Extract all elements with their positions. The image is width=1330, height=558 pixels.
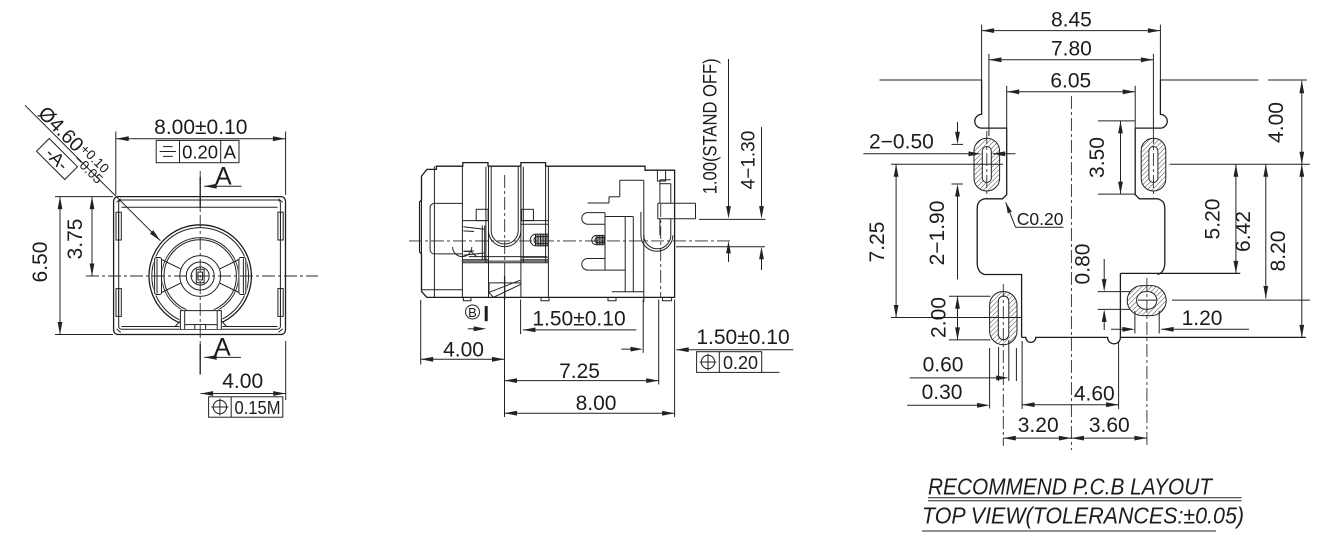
svg-text:A: A (214, 334, 231, 362)
middle view: bottom leg block with diagonals (489, 276, 521, 300)
pcb layout: dimension 2-0.50 leader (863, 130, 1015, 156)
svg-text:0.20: 0.20 (723, 353, 758, 373)
left view: section arrow A top (200, 163, 241, 209)
pcb layout: dimension 4.60 (1022, 341, 1119, 409)
middle view: top notch on back shield (657, 170, 665, 181)
pcb layout: slot center extension lines (891, 163, 1003, 165)
middle view: dimension 1.50±0.10 left (521, 300, 644, 353)
middle view: dimension 4.00 (421, 300, 505, 365)
svg-text:1.50±0.10: 1.50±0.10 (696, 326, 789, 349)
pcb layout: dimension 2.00 (928, 296, 991, 340)
left view: center pin hole (196, 269, 204, 282)
left view: edge clips (116, 212, 283, 316)
pcb layout: upper-left slot pad (974, 131, 1000, 198)
svg-text:3.20: 3.20 (1018, 414, 1059, 437)
middle view: centerlines (409, 240, 733, 242)
left view: dimension 4.00 with position frame (201, 341, 286, 418)
middle view: right pin (658, 203, 696, 219)
pcb layout: upper-right slot pad (1141, 131, 1166, 198)
pcb layout: dimension 0.60 leader (910, 340, 1017, 381)
middle view: standoff feet (463, 297, 671, 300)
left view: feature control frame symmetry 0.20 A (156, 140, 239, 162)
pcb layout: dimensions 4.00 / 8.20 (1265, 81, 1304, 338)
svg-text:4.00: 4.00 (443, 338, 484, 361)
left view: diameter leader Ø4.60 (25, 102, 160, 240)
middle view: back shield plate and U cup (641, 180, 673, 302)
middle view: standoff dimension lines (676, 58, 766, 270)
pcb layout: main centerline (1070, 96, 1072, 450)
middle view: datum B target (466, 305, 487, 331)
svg-text:B: B (468, 305, 477, 320)
pcb layout: outline (880, 80, 1308, 344)
svg-text:2.00: 2.00 (928, 297, 951, 338)
left view: concentric circles of jack barrel (149, 225, 251, 327)
middle view: knurled center pin (530, 234, 548, 246)
svg-text:6.50: 6.50 (29, 242, 52, 283)
left view: centerlines (86, 275, 318, 277)
middle view: side section outline (420, 163, 675, 298)
svg-text:8.00±0.10: 8.00±0.10 (154, 116, 247, 139)
svg-text:1.50±0.10: 1.50±0.10 (532, 307, 625, 330)
svg-text:C0.20: C0.20 (1017, 209, 1064, 229)
left view: bottom tab (175, 310, 226, 330)
svg-text:8.45: 8.45 (1051, 9, 1092, 32)
middle view: center contact U cup (489, 167, 521, 247)
left view: connector top view body (114, 197, 286, 335)
middle view: contact cavity shoulders (462, 209, 548, 259)
left view: dimension 8.00±0.10 (116, 116, 286, 195)
pcb layout: dimension 2-1.90 (926, 122, 963, 279)
svg-text:4.00: 4.00 (1265, 102, 1288, 143)
svg-text:5.20: 5.20 (1202, 199, 1225, 240)
svg-text:0.20: 0.20 (182, 142, 218, 163)
svg-text:A: A (215, 163, 232, 191)
svg-text:2−0.50: 2−0.50 (869, 130, 934, 153)
svg-text:4−1.30: 4−1.30 (739, 131, 760, 190)
left view: section arrow A bottom (200, 334, 241, 375)
svg-text:0.80: 0.80 (1072, 244, 1095, 285)
middle view: internal verticals (462, 167, 548, 298)
left view: dimension 3.75 (64, 197, 94, 276)
svg-text:0.30: 0.30 (922, 381, 963, 404)
svg-text:8.20: 8.20 (1267, 231, 1290, 272)
middle view: left contact spring (453, 226, 485, 261)
svg-text:3.75: 3.75 (64, 219, 87, 260)
pcb layout: dimension 7.80 (989, 38, 1154, 136)
middle view: shield hook cutouts (582, 213, 605, 271)
pcb layout: dimension 3.60 (1071, 414, 1147, 441)
left view: datum label -A- (36, 138, 78, 180)
pcb layout: dimension 6.42 (1232, 164, 1268, 298)
svg-text:0.60: 0.60 (923, 353, 964, 376)
middle view: dimension 8.00 (505, 300, 675, 418)
svg-text:2−1.90: 2−1.90 (926, 201, 949, 266)
svg-text:A: A (224, 142, 237, 163)
middle view: small knurled pin right (592, 235, 604, 244)
svg-text:3.60: 3.60 (1089, 414, 1130, 437)
pcb layout: dimension 1.20 (1111, 307, 1249, 334)
pcb layout: dimension 0.80 (1072, 244, 1130, 330)
pcb layout: title text (922, 474, 1244, 532)
pcb layout: lower-left slot pad (990, 284, 1017, 446)
pcb layout: dimension 3.20 (1003, 414, 1071, 441)
svg-text:7.80: 7.80 (1051, 38, 1092, 61)
pcb layout: dimension 0.30 leader (907, 348, 989, 409)
pcb layout: chamfer note C0.20 (1006, 202, 1064, 229)
left view: dimension 6.50 (29, 197, 113, 335)
pcb layout: dimension 7.25 (866, 164, 898, 317)
pcb layout: dimension 8.45 (982, 9, 1161, 81)
middle view: dimension 1.50±0.10 right with frame (676, 326, 793, 373)
middle view: flange inner lines (422, 166, 463, 297)
svg-text:8.00: 8.00 (576, 392, 617, 415)
pcb layout: lower-right oval pad (1127, 278, 1310, 446)
left view: side contact brackets (154, 257, 247, 296)
svg-text:TOP VIEW(TOLERANCES:±0.05): TOP VIEW(TOLERANCES:±0.05) (922, 503, 1244, 529)
svg-text:0.15M: 0.15M (235, 398, 281, 418)
svg-text:7.25: 7.25 (866, 222, 889, 263)
svg-text:6.05: 6.05 (1050, 70, 1091, 93)
middle view: rear cavity lines (605, 217, 644, 292)
middle view: shield step outline (588, 180, 644, 203)
pcb layout: dimension 5.20 (1202, 164, 1239, 273)
svg-text:4.00: 4.00 (222, 370, 263, 393)
svg-text:4.60: 4.60 (1074, 383, 1115, 406)
pcb layout: dimension 6.05 (1007, 70, 1135, 129)
svg-text:3.50: 3.50 (1086, 137, 1109, 178)
svg-text:1.20: 1.20 (1182, 307, 1223, 330)
svg-text:1.00(STAND OFF): 1.00(STAND OFF) (701, 58, 722, 194)
middle view: dimension 7.25 (505, 297, 659, 384)
svg-text:RECOMMEND P.C.B LAYOUT: RECOMMEND P.C.B LAYOUT (928, 474, 1214, 500)
svg-text:6.42: 6.42 (1232, 211, 1255, 252)
pcb layout: dimension 3.50 (1086, 121, 1135, 194)
svg-text:7.25: 7.25 (559, 360, 600, 383)
